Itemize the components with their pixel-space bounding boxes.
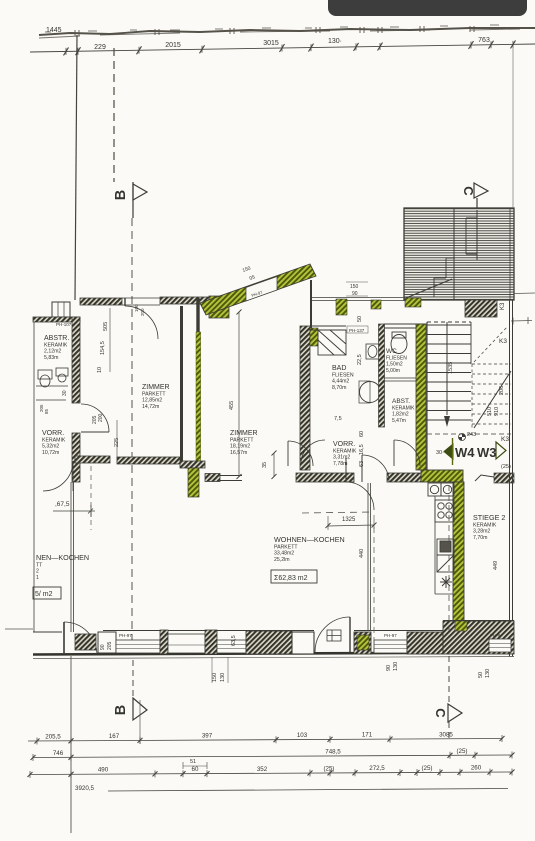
svg-text:154,5: 154,5 bbox=[100, 341, 106, 355]
svg-text:5,00m: 5,00m bbox=[386, 368, 400, 374]
svg-text:(25): (25) bbox=[456, 748, 467, 755]
section flag C top bbox=[474, 183, 488, 210]
svg-text:3085: 3085 bbox=[439, 731, 453, 738]
svg-text:150: 150 bbox=[212, 673, 218, 682]
svg-text:85: 85 bbox=[44, 408, 49, 414]
room label WC bbox=[386, 348, 407, 374]
window 1a recess bbox=[116, 640, 160, 653]
level mark circle 243 bbox=[459, 434, 466, 441]
bad left wall hatched bbox=[300, 326, 310, 470]
wall segment 443-514 raised bbox=[443, 621, 514, 654]
svg-text:103: 103 bbox=[297, 732, 308, 739]
room label VORR mid bbox=[333, 441, 357, 467]
abst door arc bbox=[394, 440, 420, 466]
dims vorr mid rotated bbox=[334, 416, 365, 467]
svg-text:7,78m: 7,78m bbox=[333, 461, 347, 467]
fridge boxes bbox=[437, 539, 454, 572]
vertical tick 140 bbox=[139, 700, 141, 744]
torn scan edge bbox=[39, 25, 535, 38]
svg-text:KERAMIK: KERAMIK bbox=[473, 522, 497, 528]
svg-text:100: 100 bbox=[134, 304, 139, 312]
svg-text:5/ m2: 5/ m2 bbox=[35, 591, 53, 598]
top dimension chain bbox=[30, 40, 535, 55]
svg-text:35: 35 bbox=[262, 462, 268, 468]
vorr door arc left bbox=[301, 440, 325, 464]
window 1c recess bbox=[217, 640, 246, 653]
window 3 bbox=[489, 639, 511, 652]
hatched terrace below balcony bbox=[465, 300, 497, 317]
svg-text:Σ62,83 m2: Σ62,83 m2 bbox=[274, 575, 308, 582]
deck bottom line extension bbox=[514, 292, 535, 295]
svg-text:60: 60 bbox=[359, 431, 365, 437]
svg-text:90: 90 bbox=[386, 665, 392, 671]
svg-text:1445: 1445 bbox=[46, 27, 62, 34]
door arc abstr top bbox=[125, 306, 158, 339]
bottom wall top edge line bbox=[103, 621, 514, 631]
svg-text:130: 130 bbox=[393, 662, 399, 671]
svg-text:PH-97: PH-97 bbox=[119, 633, 132, 638]
room label ZIMMER 1 bbox=[142, 384, 170, 410]
svg-text:ZIMMER: ZIMMER bbox=[142, 384, 170, 391]
svg-text:167: 167 bbox=[109, 733, 120, 740]
neighbour outer wall line bbox=[33, 322, 35, 632]
svg-text:63,5: 63,5 bbox=[231, 635, 237, 646]
arrow left W4 bbox=[444, 444, 453, 459]
projection dashed line neighbour bbox=[90, 466, 92, 530]
green stub below tee bbox=[188, 468, 199, 497]
green corner block bbox=[209, 296, 229, 318]
room label ZIMMER 2 bbox=[230, 430, 258, 456]
svg-text:910: 910 bbox=[494, 407, 500, 416]
svg-text:130·: 130· bbox=[328, 38, 342, 45]
door gap arc to wohnen bbox=[346, 482, 374, 510]
svg-text:K3: K3 bbox=[500, 302, 506, 310]
door arc zimmer1 entry bbox=[81, 404, 109, 432]
svg-text:PH-107: PH-107 bbox=[56, 322, 72, 327]
svg-text:260: 260 bbox=[471, 765, 482, 772]
svg-text:7,70m: 7,70m bbox=[473, 535, 487, 541]
svg-text:50: 50 bbox=[478, 672, 484, 678]
mid wall step piece bbox=[205, 474, 220, 482]
svg-text:455: 455 bbox=[229, 401, 235, 410]
svg-text:C: C bbox=[461, 186, 476, 196]
svg-text:3,28m2: 3,28m2 bbox=[473, 529, 490, 535]
bottom wall stub left bbox=[5, 628, 33, 630]
svg-text:FLIESEN: FLIESEN bbox=[386, 355, 407, 361]
dashed helper line wohnen bbox=[302, 512, 372, 513]
svg-text:10,72m: 10,72m bbox=[42, 450, 59, 456]
room label STIEGE 2 bbox=[473, 513, 505, 541]
wc top wall bbox=[384, 324, 426, 328]
bottom dim chain 1 bbox=[28, 735, 505, 745]
svg-text:VORR.: VORR. bbox=[42, 430, 64, 437]
svg-text:VORR.: VORR. bbox=[333, 441, 355, 448]
balcony door neighbour leaf bbox=[63, 622, 65, 654]
svg-text:PARKETT: PARKETT bbox=[274, 544, 298, 550]
shower square bbox=[318, 330, 346, 355]
svg-text:KERAMIK: KERAMIK bbox=[42, 437, 66, 443]
svg-text:505: 505 bbox=[103, 322, 109, 331]
room label ABSTR neighbour bbox=[44, 335, 69, 361]
door sill boxes bbox=[327, 630, 341, 641]
bottom dim chain 2 bbox=[31, 752, 515, 762]
svg-text:200: 200 bbox=[140, 308, 145, 316]
wall segment 407-443 bbox=[407, 632, 443, 654]
svg-text:KERAMIK: KERAMIK bbox=[333, 448, 357, 454]
wall right of stiege door bbox=[494, 473, 514, 483]
section flag B top bbox=[133, 182, 147, 218]
svg-text:30·: 30· bbox=[436, 450, 444, 456]
svg-text:50: 50 bbox=[357, 316, 363, 322]
bad top wall bbox=[310, 326, 346, 330]
pillar2 bbox=[205, 630, 217, 654]
svg-text:K3: K3 bbox=[499, 338, 507, 345]
right outer wall bbox=[510, 300, 513, 656]
left outer wall hatched mid bbox=[72, 433, 80, 482]
green part on raised wall bbox=[455, 621, 467, 631]
right boundary line above plan bbox=[512, 46, 514, 208]
svg-text:W4: W4 bbox=[455, 445, 475, 460]
left wall thin double below bbox=[71, 482, 74, 632]
svg-text:ZIMMER: ZIMMER bbox=[230, 430, 258, 437]
svg-text:2015: 2015 bbox=[165, 42, 181, 49]
svg-text:10: 10 bbox=[97, 367, 103, 373]
svg-text:2,12m2: 2,12m2 bbox=[44, 349, 61, 355]
svg-text:30: 30 bbox=[62, 390, 68, 396]
svg-text:8,70m: 8,70m bbox=[332, 385, 346, 391]
hotplates bbox=[428, 483, 454, 496]
green jamb left of shower bbox=[310, 328, 318, 346]
svg-text:14,72m: 14,72m bbox=[142, 404, 159, 410]
balcony door wohnen leaf bbox=[349, 617, 351, 652]
svg-text:KERAMIK: KERAMIK bbox=[392, 405, 415, 411]
stair upper diagonal dashed bbox=[474, 326, 508, 362]
svg-text:1: 1 bbox=[36, 575, 39, 581]
slanted green wall bbox=[200, 264, 316, 315]
bathtub circle bbox=[360, 382, 381, 403]
svg-text:ABSTR.: ABSTR. bbox=[44, 335, 69, 342]
svg-text:60: 60 bbox=[192, 766, 199, 773]
svg-text:205,5: 205,5 bbox=[45, 733, 61, 740]
svg-text:KERAMIK: KERAMIK bbox=[44, 342, 68, 348]
svg-text:229: 229 bbox=[94, 44, 106, 51]
staircase treads bbox=[427, 322, 471, 427]
svg-text:763: 763 bbox=[478, 37, 490, 44]
label PH-137 bbox=[347, 326, 368, 333]
neighbour wc fixtures bbox=[36, 368, 68, 400]
svg-text:1535: 1535 bbox=[448, 362, 454, 374]
svg-text:22,5: 22,5 bbox=[357, 354, 363, 365]
svg-text:3920,5: 3920,5 bbox=[75, 785, 94, 792]
mid wall left hatched bbox=[75, 456, 110, 463]
svg-text:748,5: 748,5 bbox=[325, 748, 341, 755]
svg-text:(25): (25) bbox=[323, 765, 334, 772]
svg-text:TT: TT bbox=[36, 562, 43, 568]
svg-text:90: 90 bbox=[100, 644, 106, 650]
wc/abst divider bbox=[384, 378, 424, 381]
wall reference line left bbox=[75, 35, 77, 300]
wohnen entry door leaf+arc bbox=[362, 455, 389, 482]
svg-text:PH-137: PH-137 bbox=[349, 328, 365, 333]
svg-text:PARKETT: PARKETT bbox=[142, 391, 166, 397]
svg-text:130: 130 bbox=[485, 669, 491, 678]
svg-text:C: C bbox=[433, 708, 448, 718]
zimmer divider wall left line bbox=[180, 306, 183, 461]
section line B dashed through plan bbox=[131, 218, 133, 660]
wc toilet bbox=[391, 332, 407, 354]
section flag C bottom bbox=[448, 656, 462, 740]
svg-text:746: 746 bbox=[53, 750, 64, 757]
stair left boundary line bbox=[426, 322, 428, 470]
svg-text:1,50m2: 1,50m2 bbox=[386, 362, 403, 368]
white panel 292-314 bbox=[292, 632, 314, 654]
section flag B bottom bbox=[133, 660, 147, 720]
star symbol bbox=[440, 576, 452, 588]
svg-text:33,48m2: 33,48m2 bbox=[274, 551, 294, 557]
green wall right of wc bbox=[416, 324, 426, 470]
svg-text:1325: 1325 bbox=[342, 517, 356, 523]
svg-text:WOHNEN—KOCHEN: WOHNEN—KOCHEN bbox=[274, 535, 345, 544]
svg-text:FLIESEN: FLIESEN bbox=[332, 372, 354, 378]
svg-text:25,2lm: 25,2lm bbox=[274, 557, 290, 563]
thin wall line to balcony bbox=[312, 298, 405, 301]
window 2 bbox=[374, 640, 407, 653]
svg-text:171: 171 bbox=[362, 732, 373, 739]
green bits on top wall bbox=[336, 299, 347, 315]
svg-text:18,19m2: 18,19m2 bbox=[230, 444, 250, 450]
stair top line extension bbox=[511, 320, 532, 323]
left outer wall hatched upper bbox=[72, 317, 80, 403]
svg-text:5,47m: 5,47m bbox=[392, 418, 406, 424]
svg-text:K3: K3 bbox=[501, 436, 509, 443]
section line B upper dashed bbox=[113, 48, 115, 182]
dim 90/130 mid-bottom dashed vert bbox=[373, 527, 375, 656]
staircase upper flight dashed bbox=[472, 364, 511, 428]
svg-text:PH-9: PH-9 bbox=[490, 633, 501, 638]
top wall of neighbour strip bbox=[33, 317, 80, 322]
door arc zimmer2 to vorr bbox=[288, 441, 313, 466]
svg-text:200: 200 bbox=[98, 413, 104, 422]
svg-text:,67,5: ,67,5 bbox=[55, 501, 70, 508]
svg-text:51: 51 bbox=[190, 759, 196, 765]
area sum box neighbour bbox=[33, 587, 61, 599]
svg-text:4,44m2: 4,44m2 bbox=[332, 379, 349, 385]
white panel with green dim 90/205 bbox=[98, 632, 116, 653]
svg-text:3015: 3015 bbox=[263, 40, 279, 47]
area sum box wohnen bbox=[271, 570, 317, 583]
block with green window cell bbox=[354, 632, 371, 654]
svg-text:PH-97: PH-97 bbox=[384, 633, 397, 638]
room label VORR neighbour bbox=[42, 430, 66, 456]
apartment labels W4 W3 bbox=[455, 445, 497, 460]
mid wall hatched right bbox=[387, 473, 421, 482]
svg-text:7,5: 7,5 bbox=[334, 416, 342, 422]
top wall zimmer1 bbox=[80, 297, 209, 305]
window 1b recess bbox=[168, 634, 205, 653]
svg-text:449: 449 bbox=[493, 561, 499, 570]
svg-text:150: 150 bbox=[350, 284, 359, 290]
svg-text:5,83m: 5,83m bbox=[44, 355, 58, 361]
svg-text:STIEGE 2: STIEGE 2 bbox=[473, 513, 505, 522]
dim col zimmer1 bbox=[97, 322, 120, 447]
bottom dim chain 3 bbox=[28, 769, 515, 779]
mid wall hatched center bbox=[296, 473, 354, 482]
room label WOHNEN-KOCHEN bbox=[274, 535, 345, 563]
wall segment 246-292 bbox=[246, 631, 292, 654]
room label BAD bbox=[332, 365, 354, 391]
svg-text:(25): (25) bbox=[421, 765, 432, 772]
pillar between windows bbox=[160, 630, 168, 654]
kitchen wall green vertical bbox=[453, 482, 464, 631]
svg-text:1,82m2: 1,82m2 bbox=[392, 412, 409, 418]
dashed landing line bbox=[427, 433, 511, 435]
wall bad/wc bbox=[379, 324, 385, 427]
svg-text:397: 397 bbox=[202, 733, 213, 740]
kitchen side thin wall line bbox=[368, 483, 371, 631]
svg-text:3,31m2: 3,31m2 bbox=[333, 455, 350, 461]
kitchen wall green horizontal bbox=[421, 470, 463, 482]
room label ABST bbox=[392, 398, 415, 424]
divider bottom tee hatched bbox=[180, 461, 205, 468]
svg-text:130: 130 bbox=[220, 673, 226, 682]
svg-text:WC: WC bbox=[386, 348, 397, 355]
counter line bbox=[435, 496, 453, 594]
svg-text:490: 490 bbox=[98, 767, 109, 774]
arrow right W3 bbox=[496, 442, 506, 459]
window gap in slant bbox=[246, 277, 277, 302]
svg-text:272,5: 272,5 bbox=[369, 765, 385, 772]
svg-text:PARKETT: PARKETT bbox=[230, 437, 254, 443]
svg-text:440: 440 bbox=[359, 549, 365, 558]
stiege2 door zigzag bbox=[475, 475, 494, 481]
svg-text:16,5: 16,5 bbox=[359, 444, 365, 455]
svg-text:NEN—KOCHEN: NEN—KOCHEN bbox=[36, 553, 89, 562]
svg-text:ABST.: ABST. bbox=[392, 398, 410, 405]
svg-text:352: 352 bbox=[257, 766, 268, 773]
bottom dim chain 4 bbox=[108, 789, 508, 792]
svg-text:12,85m2: 12,85m2 bbox=[142, 398, 162, 404]
svg-text:B: B bbox=[113, 705, 129, 715]
door arc neighbour vorr bbox=[43, 461, 73, 491]
chimney box top-left bbox=[52, 302, 70, 317]
balcony deck with decking stripes bbox=[404, 208, 514, 300]
wall right of slant, top of bad bbox=[310, 280, 312, 330]
svg-text:5,32m2: 5,32m2 bbox=[42, 444, 59, 450]
svg-text:B: B bbox=[113, 190, 129, 200]
door sill box hatched bbox=[75, 634, 96, 650]
zimmer divider wall right line bbox=[196, 298, 199, 332]
svg-text:243: 243 bbox=[467, 432, 476, 438]
stove 4 rings bbox=[435, 500, 454, 522]
bottom wall base line bbox=[33, 653, 514, 655]
svg-text:510: 510 bbox=[487, 407, 493, 416]
dashed section C through kitchen bbox=[448, 485, 450, 631]
svg-text:205: 205 bbox=[107, 641, 113, 650]
washbasin bad bbox=[366, 344, 379, 359]
svg-text:2: 2 bbox=[36, 569, 39, 575]
room label neighbour WOHNEN clipped bbox=[36, 553, 89, 581]
dark toolbar fragment top-right bbox=[328, 0, 527, 16]
vertical reference line left bottom bbox=[70, 656, 72, 833]
svg-text:206: 206 bbox=[499, 386, 505, 395]
svg-text:BAD: BAD bbox=[332, 365, 346, 372]
stair diagonal rail bbox=[474, 371, 511, 428]
svg-text:W3: W3 bbox=[477, 445, 497, 460]
